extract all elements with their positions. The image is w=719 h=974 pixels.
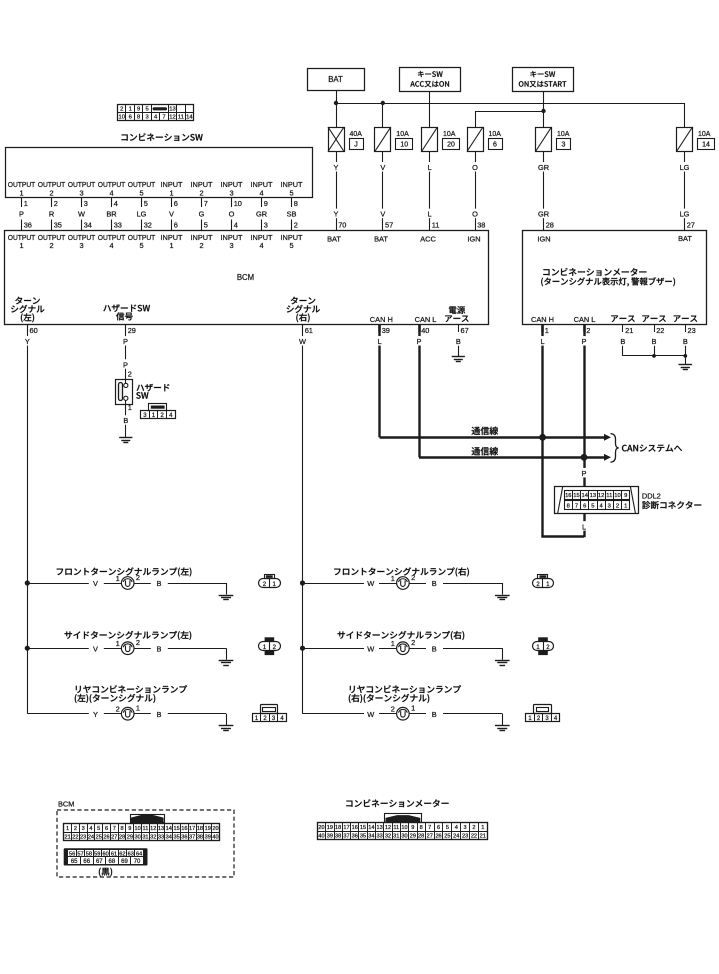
svg-text:IGN: IGN <box>537 235 550 244</box>
svg-text:70: 70 <box>338 221 346 230</box>
svg-text:1: 1 <box>19 188 23 197</box>
wire pin21 drop <box>622 346 624 356</box>
svg-text:26: 26 <box>103 834 109 840</box>
svg-text:L: L <box>427 163 431 172</box>
svg-text:3: 3 <box>82 826 85 832</box>
svg-text:2: 2 <box>391 705 395 714</box>
label BCM <box>237 273 254 282</box>
svg-text:5: 5 <box>97 826 100 832</box>
svg-text:29: 29 <box>128 326 136 335</box>
svg-text:11: 11 <box>432 221 440 230</box>
svg-text:BCM: BCM <box>237 273 254 282</box>
svg-text:1: 1 <box>66 826 69 832</box>
wire hazard SW to ground <box>122 403 132 438</box>
svg-text:34: 34 <box>368 833 374 839</box>
svg-text:13: 13 <box>169 106 175 112</box>
connector front lamp L <box>259 575 281 589</box>
svg-text:66: 66 <box>83 859 90 865</box>
svg-text:4: 4 <box>455 825 458 831</box>
svg-text:15: 15 <box>360 825 366 831</box>
svg-text:8: 8 <box>567 503 570 509</box>
svg-text:B: B <box>683 337 688 346</box>
label side turn lamp L <box>65 631 192 640</box>
svg-text:3: 3 <box>84 199 88 208</box>
svg-text:13: 13 <box>377 825 383 831</box>
svg-text:4: 4 <box>109 241 113 250</box>
BCM bottom pin labels turn signal right <box>287 297 320 323</box>
combination SW pin ticks and pin numbers <box>22 197 298 208</box>
meter pin 1 CAN H <box>538 324 549 346</box>
lamp rear combination left <box>27 704 233 731</box>
svg-text:6: 6 <box>129 115 132 121</box>
svg-text:6: 6 <box>105 826 108 832</box>
svg-text:CAN H: CAN H <box>531 315 554 324</box>
svg-text:10: 10 <box>614 493 620 499</box>
svg-text:V: V <box>380 163 385 172</box>
svg-text:4: 4 <box>234 221 238 230</box>
svg-text:3: 3 <box>79 188 83 197</box>
ground combination meter <box>679 365 693 370</box>
node turn L row1 <box>25 580 30 585</box>
svg-text:CAN H: CAN H <box>370 315 393 324</box>
BCM connector dashed outline <box>57 810 234 877</box>
svg-text:18: 18 <box>197 826 203 832</box>
svg-text:57: 57 <box>385 221 393 230</box>
svg-text:5: 5 <box>204 221 208 230</box>
svg-text:13: 13 <box>590 493 596 499</box>
svg-text:L: L <box>541 337 545 346</box>
svg-text:28: 28 <box>546 221 554 230</box>
svg-text:GR: GR <box>538 163 549 172</box>
svg-text:38: 38 <box>197 834 203 840</box>
svg-text:23: 23 <box>80 834 86 840</box>
svg-text:36: 36 <box>352 833 358 839</box>
label DDL2 <box>642 492 661 501</box>
svg-text:1: 1 <box>481 825 484 831</box>
svg-text:3: 3 <box>264 221 268 230</box>
wire turn signal left feed <box>27 324 29 714</box>
svg-text:36: 36 <box>181 834 187 840</box>
connector side lamp R <box>533 637 554 655</box>
svg-text:2: 2 <box>136 573 140 582</box>
svg-text:17: 17 <box>189 826 195 832</box>
svg-text:23: 23 <box>462 833 468 839</box>
svg-text:2: 2 <box>49 188 53 197</box>
svg-text:11: 11 <box>178 115 184 121</box>
svg-text:7: 7 <box>204 199 208 208</box>
connector pinout (combination SW 14-pin) <box>118 104 194 121</box>
svg-text:4: 4 <box>114 199 118 208</box>
svg-text:14: 14 <box>166 826 172 832</box>
brace CAN system <box>611 434 619 463</box>
svg-text:BAT: BAT <box>328 75 343 84</box>
svg-text:27: 27 <box>687 221 695 230</box>
svg-text:21: 21 <box>625 326 633 335</box>
svg-text:V: V <box>93 644 98 653</box>
svg-text:IGN: IGN <box>467 235 480 244</box>
svg-text:P: P <box>19 210 24 219</box>
svg-text:14: 14 <box>186 115 193 121</box>
meter ground pin labels <box>611 315 697 322</box>
svg-text:R: R <box>49 210 54 219</box>
svg-text:10: 10 <box>135 826 141 832</box>
svg-text:L: L <box>582 522 586 531</box>
svg-text:10: 10 <box>401 825 407 831</box>
node IGN-bus junction <box>541 109 545 113</box>
svg-text:18: 18 <box>335 825 341 831</box>
meter power pin labels <box>537 234 692 244</box>
node turn R row1 <box>300 580 305 585</box>
svg-text:7: 7 <box>113 826 116 832</box>
svg-text:12: 12 <box>598 493 604 499</box>
svg-text:20: 20 <box>447 142 455 149</box>
BCM bottom pin labels hazard <box>103 304 150 320</box>
svg-text:2: 2 <box>294 221 298 230</box>
svg-text:DDL2: DDL2 <box>642 492 661 501</box>
svg-text:1: 1 <box>624 503 627 509</box>
BCM pin 67 ground <box>454 324 469 346</box>
svg-text:1: 1 <box>391 639 395 648</box>
svg-text:5: 5 <box>139 188 143 197</box>
wire color codes SW-to-BCM <box>19 210 296 219</box>
hazard switch SW2 <box>116 377 133 405</box>
svg-text:11: 11 <box>143 826 149 832</box>
svg-text:GR: GR <box>538 210 549 219</box>
svg-text:27: 27 <box>427 833 433 839</box>
svg-text:9: 9 <box>128 826 131 832</box>
svg-text:20: 20 <box>212 826 218 832</box>
wire fuse 14 output LG <box>678 152 695 231</box>
svg-text:G: G <box>199 210 205 219</box>
svg-text:P: P <box>417 337 422 346</box>
svg-text:67: 67 <box>461 326 469 335</box>
wire CAN L from BCM <box>418 324 420 457</box>
connector BCM 40-pin <box>64 815 220 841</box>
node fuse10 junction <box>381 101 385 105</box>
svg-text:Y: Y <box>334 163 339 172</box>
svg-text:B: B <box>652 337 657 346</box>
svg-text:21: 21 <box>64 834 70 840</box>
BCM bottom pin labels turn signal left <box>11 297 44 323</box>
svg-text:10A: 10A <box>489 131 502 138</box>
node CAN H junction <box>539 434 546 441</box>
svg-text:B: B <box>157 710 162 719</box>
svg-text:1: 1 <box>411 704 415 713</box>
svg-text:30: 30 <box>401 833 407 839</box>
svg-text:29: 29 <box>127 834 133 840</box>
svg-text:40A: 40A <box>350 131 363 138</box>
BCM ground pin label <box>445 306 468 322</box>
svg-text:32: 32 <box>150 834 156 840</box>
BCM body control module box <box>5 231 489 325</box>
lamp front turn signal left <box>27 573 233 600</box>
svg-text:J: J <box>354 142 358 149</box>
svg-text:O: O <box>229 210 235 219</box>
svg-text:13: 13 <box>158 826 164 832</box>
svg-text:SB: SB <box>287 210 297 219</box>
svg-text:2: 2 <box>54 199 58 208</box>
BCM input/output pin labels <box>8 233 303 250</box>
svg-text:27: 27 <box>111 834 117 840</box>
connector pinout hazard SW 4-pin <box>141 404 176 419</box>
battery BAT box <box>308 69 365 91</box>
label combination SW title <box>122 133 203 141</box>
svg-text:1: 1 <box>128 403 132 412</box>
svg-text:35: 35 <box>360 833 366 839</box>
svg-text:10: 10 <box>234 199 242 208</box>
svg-text:V: V <box>380 210 385 219</box>
svg-text:5: 5 <box>145 106 148 112</box>
svg-text:12: 12 <box>150 826 156 832</box>
wire ON/START drop <box>543 91 545 111</box>
svg-text:Y: Y <box>334 210 339 219</box>
lamp rear combination right <box>303 704 510 731</box>
label CAN line 2 <box>472 447 499 455</box>
svg-text:21: 21 <box>480 833 486 839</box>
svg-text:10: 10 <box>119 115 125 121</box>
svg-text:37: 37 <box>343 833 349 839</box>
svg-text:34: 34 <box>84 221 92 230</box>
svg-text:1: 1 <box>391 574 395 583</box>
svg-text:39: 39 <box>382 326 390 335</box>
wire CAN H bus <box>380 436 605 438</box>
wire ACC drop <box>429 91 431 127</box>
svg-text:2: 2 <box>74 826 77 832</box>
svg-text:5: 5 <box>139 241 143 250</box>
svg-text:LG: LG <box>680 163 690 172</box>
svg-text:11: 11 <box>606 493 612 499</box>
svg-text:8: 8 <box>294 199 298 208</box>
svg-text:2: 2 <box>49 241 53 250</box>
connector rear lamp L <box>253 705 287 723</box>
svg-text:14: 14 <box>368 825 374 831</box>
svg-text:B: B <box>432 579 437 588</box>
svg-text:CAN L: CAN L <box>415 315 437 324</box>
svg-text:3: 3 <box>145 115 148 121</box>
svg-text:10A: 10A <box>698 131 711 138</box>
svg-text:16: 16 <box>181 826 187 832</box>
svg-text:32: 32 <box>144 221 152 230</box>
svg-text:3: 3 <box>229 241 233 250</box>
wire fuse14 drop <box>684 103 686 127</box>
ground hazard SW <box>119 438 132 443</box>
svg-text:35: 35 <box>54 221 62 230</box>
label rear combination lamp L <box>75 685 187 703</box>
svg-text:L: L <box>427 210 431 219</box>
wire CAN L to DDL2 <box>580 457 589 486</box>
BCM pin 39 CAN H <box>375 324 390 346</box>
svg-text:LG: LG <box>137 210 147 219</box>
svg-text:33: 33 <box>158 834 164 840</box>
svg-text:1: 1 <box>116 574 120 583</box>
svg-text:1: 1 <box>116 639 120 648</box>
wire CAN H to DDL2 <box>541 437 588 537</box>
svg-text:2: 2 <box>411 638 415 647</box>
svg-text:10A: 10A <box>443 131 456 138</box>
BCM pin 60 turn L <box>23 324 38 346</box>
svg-text:11: 11 <box>393 825 399 831</box>
svg-text:39: 39 <box>205 834 211 840</box>
svg-text:BAT: BAT <box>327 235 341 244</box>
wire meter CAN L drop <box>583 324 585 457</box>
BCM pin 61 turn R <box>298 324 313 346</box>
svg-text:31: 31 <box>142 834 148 840</box>
svg-text:19: 19 <box>205 826 211 832</box>
wire turn signal right feed <box>302 324 304 714</box>
svg-text:B: B <box>123 416 128 425</box>
svg-text:4: 4 <box>89 826 92 832</box>
combination meter box <box>523 231 707 325</box>
svg-text:14: 14 <box>581 493 588 499</box>
svg-text:P: P <box>582 469 587 478</box>
svg-text:5: 5 <box>591 503 594 509</box>
svg-text:29: 29 <box>410 833 416 839</box>
svg-text:24: 24 <box>453 833 459 839</box>
wire fuse10 drop <box>382 103 384 127</box>
svg-text:B: B <box>157 644 162 653</box>
node CAN L junction <box>581 454 588 461</box>
svg-text:BCM: BCM <box>58 799 74 808</box>
svg-text:8: 8 <box>420 825 423 831</box>
svg-text:5: 5 <box>144 199 148 208</box>
svg-text:38: 38 <box>335 833 341 839</box>
wire fuse 10 output V <box>379 152 393 231</box>
label side turn lamp R <box>338 631 465 640</box>
label rear combination lamp R <box>349 685 461 703</box>
svg-text:B: B <box>432 644 437 653</box>
label diagnostic connector <box>642 501 701 509</box>
label front turn lamp L <box>57 567 192 576</box>
wire meter CAN H drop <box>541 324 543 437</box>
svg-text:19: 19 <box>327 825 333 831</box>
connector combination meter 40-pin <box>317 814 487 840</box>
svg-text:6: 6 <box>174 199 178 208</box>
svg-text:3: 3 <box>464 825 467 831</box>
svg-text:BR: BR <box>106 210 116 219</box>
wire IGN bus <box>475 111 544 113</box>
ground BCM power <box>452 357 465 362</box>
svg-text:W: W <box>367 710 374 719</box>
label to CAN system <box>622 445 682 452</box>
svg-text:33: 33 <box>114 221 122 230</box>
svg-text:17: 17 <box>343 825 349 831</box>
fuse 10A 3 <box>536 127 571 152</box>
svg-text:24: 24 <box>88 834 94 840</box>
meter pin 2 CAN L <box>580 324 591 346</box>
key switch ACC box <box>400 68 461 92</box>
svg-text:P: P <box>582 337 587 346</box>
svg-text:14: 14 <box>702 142 710 149</box>
svg-text:12: 12 <box>169 115 175 121</box>
connector side lamp L <box>259 637 281 655</box>
BCM pin 29 hazard <box>121 324 136 346</box>
svg-text:CAN L: CAN L <box>574 315 596 324</box>
svg-text:35: 35 <box>173 834 179 840</box>
fuse 10A 20 <box>422 127 460 152</box>
svg-text:9: 9 <box>411 825 414 831</box>
svg-text:16: 16 <box>352 825 358 831</box>
wire pin23 drop <box>685 346 687 365</box>
svg-text:BAT: BAT <box>374 235 388 244</box>
svg-text:15: 15 <box>173 826 179 832</box>
svg-text:W: W <box>299 337 306 346</box>
wire fuse J output Y <box>332 152 346 231</box>
svg-text:40: 40 <box>421 326 429 335</box>
key switch ON/START box <box>513 68 574 92</box>
svg-text:O: O <box>472 163 478 172</box>
wire pin29 to hazard SW <box>121 324 132 379</box>
svg-text:69: 69 <box>121 859 128 865</box>
svg-text:6: 6 <box>174 221 178 230</box>
svg-text:10: 10 <box>400 142 408 149</box>
svg-text:15: 15 <box>573 493 579 499</box>
svg-text:P: P <box>123 361 128 370</box>
wire CAN H from BCM <box>378 324 380 437</box>
svg-text:P: P <box>123 337 128 346</box>
svg-text:1: 1 <box>136 704 140 713</box>
svg-text:4: 4 <box>109 188 113 197</box>
label meter connector section <box>346 799 448 807</box>
svg-text:31: 31 <box>393 833 399 839</box>
svg-text:1: 1 <box>169 241 173 250</box>
connector BCM 15-pin black <box>64 848 148 865</box>
svg-text:5: 5 <box>289 241 293 250</box>
svg-text:1: 1 <box>169 188 173 197</box>
svg-text:BAT: BAT <box>678 234 692 243</box>
svg-text:LG: LG <box>680 210 690 219</box>
svg-text:9: 9 <box>264 199 268 208</box>
svg-text:3: 3 <box>608 503 611 509</box>
svg-text:6: 6 <box>437 825 440 831</box>
svg-text:3: 3 <box>562 142 566 149</box>
meter CAN pin labels <box>531 315 595 324</box>
svg-text:L: L <box>377 337 381 346</box>
arrow CAN H <box>604 434 611 441</box>
svg-text:9: 9 <box>624 493 627 499</box>
svg-text:10A: 10A <box>396 131 409 138</box>
svg-text:5: 5 <box>289 188 293 197</box>
svg-text:39: 39 <box>327 833 333 839</box>
svg-text:2: 2 <box>136 638 140 647</box>
wire CAN L bus <box>419 456 604 458</box>
svg-text:W: W <box>367 644 374 653</box>
svg-text:2: 2 <box>199 188 203 197</box>
svg-text:70: 70 <box>134 859 141 865</box>
wire fuse 20 output L <box>426 152 440 231</box>
node BAT-bus junction <box>334 101 338 105</box>
svg-text:B: B <box>432 710 437 719</box>
svg-text:36: 36 <box>24 221 32 230</box>
BCM pin 40 CAN L <box>415 324 430 346</box>
svg-text:6: 6 <box>583 503 586 509</box>
node turn L row2 <box>25 646 30 651</box>
svg-text:2: 2 <box>586 326 590 335</box>
svg-text:10A: 10A <box>557 131 570 138</box>
svg-text:25: 25 <box>96 834 102 840</box>
label front turn lamp R <box>334 567 469 576</box>
svg-text:3: 3 <box>79 241 83 250</box>
svg-text:3: 3 <box>229 188 233 197</box>
svg-text:38: 38 <box>477 221 485 230</box>
svg-text:22: 22 <box>72 834 78 840</box>
meter pin 21 <box>618 324 633 346</box>
svg-text:1: 1 <box>19 241 23 250</box>
svg-text:40: 40 <box>318 833 324 839</box>
fuse 10A 6 <box>467 127 503 152</box>
wire pin22 drop <box>654 346 656 356</box>
svg-text:B: B <box>456 337 461 346</box>
combination switch SW1 box <box>6 148 313 198</box>
